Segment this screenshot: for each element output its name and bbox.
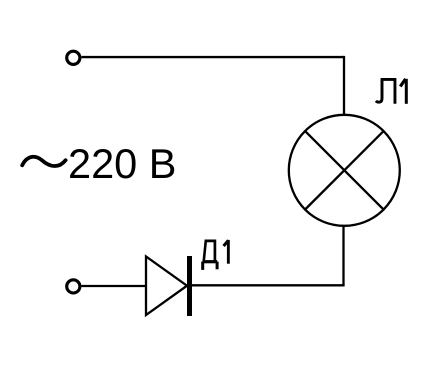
- label Д1: [203, 240, 229, 270]
- wire: lamp bottom to bottom-right corner: [342, 226, 344, 285]
- wire: top corner down to lamp top: [343, 56, 345, 115]
- lamp Л1: [289, 115, 400, 226]
- AC sign: tilde: [22, 157, 65, 166]
- diode Д1: anode triangle: [146, 257, 187, 316]
- wire: top terminal to top-right corner: [82, 56, 345, 58]
- svg-text:220 В: 220 В: [68, 140, 176, 187]
- diode Д1: cathode bar: [187, 256, 192, 316]
- wire: bottom corner to diode cathode: [192, 284, 345, 286]
- terminal X1 (top input): [67, 51, 80, 64]
- terminal X2 (bottom input): [67, 280, 80, 293]
- label Л1: [376, 79, 406, 104]
- wire: bottom terminal to diode anode: [82, 285, 147, 287]
